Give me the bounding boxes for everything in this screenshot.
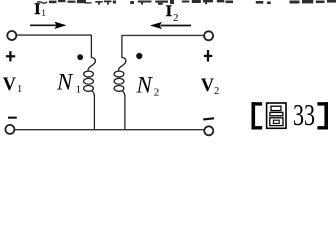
current label I2 — [166, 3, 179, 24]
svg-text:I: I — [34, 1, 40, 18]
winding label N2 — [136, 72, 160, 98]
svg-text:V: V — [3, 75, 17, 95]
svg-text:1: 1 — [41, 9, 46, 19]
svg-text:2: 2 — [214, 86, 219, 97]
wire: bottom horizontal — [15, 129, 204, 131]
svg-text:2: 2 — [154, 87, 160, 99]
svg-text:N: N — [136, 72, 154, 97]
caption: left lenticular bracket — [252, 102, 263, 129]
caption: right lenticular bracket — [317, 102, 328, 129]
terminal: top-right — [204, 31, 213, 40]
svg-text:1: 1 — [76, 84, 82, 96]
voltage label V2 — [201, 76, 219, 97]
current label I1 — [34, 1, 46, 19]
voltage label V1 — [3, 75, 23, 95]
svg-text:2: 2 — [173, 12, 179, 24]
svg-text:N: N — [56, 70, 74, 95]
winding N2 (secondary coil) — [114, 35, 126, 130]
caption: character TU (figure) drawn as vector — [267, 103, 286, 128]
polarity dot (N1) — [77, 54, 83, 60]
polarity dot (N2) — [136, 53, 142, 59]
current arrow I1 (pointing right) — [30, 22, 67, 29]
svg-text:1: 1 — [17, 84, 22, 95]
wire: top-left horizontal — [17, 34, 92, 36]
svg-text:V: V — [201, 76, 215, 96]
svg-text:33: 33 — [293, 97, 315, 132]
cropped text line fragments (top of page) — [37, 0, 336, 5]
svg-text:I: I — [166, 3, 172, 20]
plus sign (V1 +) — [6, 51, 15, 61]
terminal: bottom-right — [204, 126, 213, 135]
wire: top-right horizontal — [122, 34, 204, 36]
minus sign (V1 -) — [8, 117, 17, 119]
winding label N1 — [56, 70, 81, 96]
current arrow I2 (pointing left) — [150, 22, 191, 29]
minus sign (V2 -) — [203, 118, 214, 119]
terminal: top-left — [7, 31, 16, 40]
plus sign (V2 +) — [204, 50, 213, 62]
winding N1 (primary coil) — [84, 35, 96, 130]
terminal: bottom-left — [5, 125, 14, 134]
